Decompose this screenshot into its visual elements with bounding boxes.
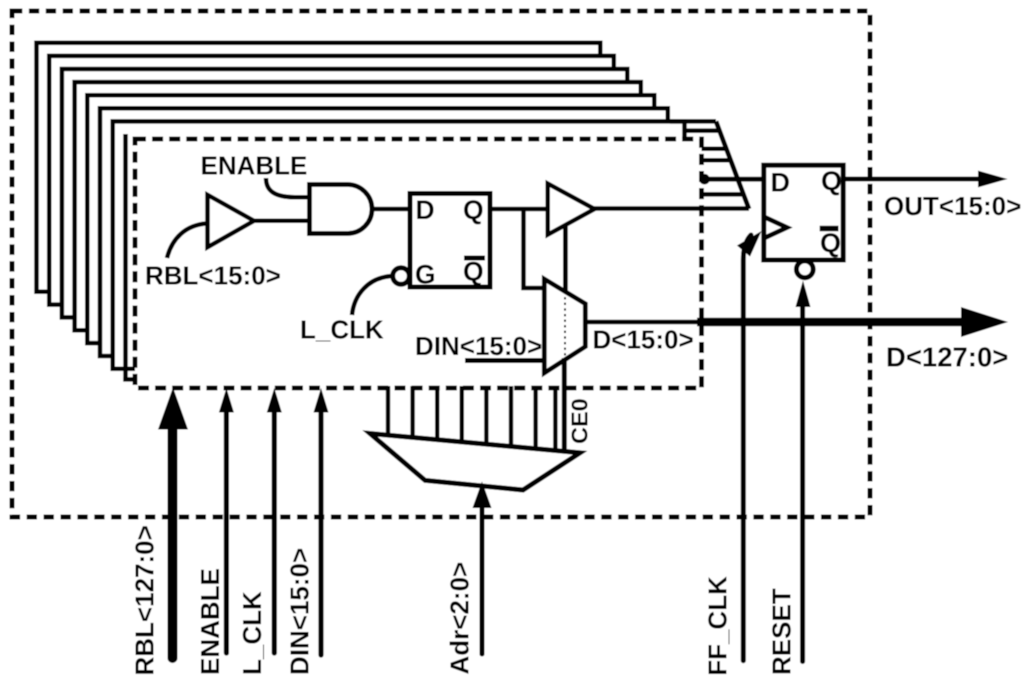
mux select dotted divider: [564, 286, 566, 368]
wire buffer A2 output to funnel: [593, 206, 749, 211]
wire slice7 output to funnel apex: [670, 119, 716, 124]
svg-text:DIN<15:0>: DIN<15:0>: [285, 548, 315, 675]
outer dashed block boundary: [12, 11, 870, 517]
svg-text:Q: Q: [463, 257, 484, 287]
svg-text:Q: Q: [463, 195, 484, 225]
slice stack rect 4: [75, 82, 641, 330]
wire FF_CLK with curved arrow: [743, 235, 751, 661]
svg-text:Adr<2:0>: Adr<2:0>: [445, 562, 475, 675]
bus D<127:0> thick wire: [697, 318, 963, 327]
svg-text:D: D: [771, 168, 791, 198]
wire RESET with arrowhead: [800, 306, 805, 662]
input arrow Adr<2:0>: [480, 500, 485, 654]
wire CE0 select: [562, 358, 567, 450]
bit-slice dashed box: [135, 139, 702, 388]
tri-state buffer A2: [548, 184, 595, 235]
decoder CE hang wire 1: [386, 386, 390, 441]
slice stack rect 3: [62, 69, 627, 317]
svg-text:Q: Q: [821, 166, 842, 196]
slice stack rect 8 left edge: [123, 134, 128, 382]
wire ENABLE curve: [266, 178, 310, 197]
wire latch Q to buffer: [490, 207, 549, 212]
flip-flop Qbar overline: [820, 226, 839, 232]
wire funnel to flip-flop D input: [703, 177, 766, 182]
flip-flop U3 box: [764, 165, 843, 260]
slice stack rect 7: [113, 121, 685, 368]
flip-flop reset bubble: [796, 261, 813, 278]
latch Qbar overline: [464, 256, 485, 261]
wire buffer to AND: [252, 219, 311, 224]
node dot on D wire: [699, 174, 710, 185]
decoder CE hang wire 5: [484, 386, 488, 450]
decoder CE hang wire 6: [509, 386, 513, 452]
decoder CE hang wire 3: [435, 386, 439, 446]
input arrow L_CLK: [272, 408, 277, 653]
wire junction down to mux: [524, 209, 547, 288]
funnel wire 3: [702, 147, 729, 152]
svg-text:DIN<15:0>: DIN<15:0>: [415, 331, 542, 361]
input arrow RBL<127:0>: [168, 424, 178, 658]
svg-text:D<15:0>: D<15:0>: [593, 325, 694, 355]
slice stack rect 6: [100, 108, 668, 356]
slice stack rect 2: [49, 56, 614, 305]
wire AND to latch D: [372, 207, 411, 212]
slice stack rect 1 (back): [37, 43, 601, 292]
svg-text:FF_CLK: FF_CLK: [703, 576, 733, 676]
wire OUT<15:0> with arrowhead: [843, 177, 981, 182]
svg-text:RBL<127:0>: RBL<127:0>: [130, 525, 160, 675]
wire DIN into mux: [465, 358, 546, 363]
wire RBL label curve: [167, 224, 207, 259]
input arrow DIN<15:0>: [318, 408, 323, 655]
decoder U2 trapezoid: [370, 434, 580, 491]
svg-text:L_CLK: L_CLK: [300, 315, 384, 345]
input arrow ENABLE: [224, 408, 229, 653]
funnel wire 6: [702, 192, 746, 197]
decoder CE hang wire 8: [553, 386, 557, 456]
svg-text:L_CLK: L_CLK: [237, 591, 267, 675]
AND gate: [310, 185, 373, 234]
wire slice8 output step: [685, 128, 720, 133]
svg-text:G: G: [415, 260, 436, 290]
funnel slant (8:1 wire merge): [716, 121, 749, 209]
mux M1 trapezoid: [544, 279, 585, 373]
latch G bubble: [393, 268, 410, 285]
svg-text:ENABLE: ENABLE: [201, 151, 308, 181]
flip-flop clock wedge: [764, 217, 787, 238]
wire mux output D<15:0>: [585, 320, 700, 325]
funnel wire 4: [702, 158, 733, 163]
slice stack rect 8 bottom edge: [123, 377, 133, 382]
svg-text:D<127:0>: D<127:0>: [886, 342, 1008, 373]
svg-text:ENABLE: ENABLE: [195, 568, 225, 675]
svg-text:Q: Q: [820, 228, 841, 258]
decoder CE hang wire 4: [460, 386, 464, 448]
svg-text:RESET: RESET: [767, 588, 797, 675]
svg-text:OUT<15:0>: OUT<15:0>: [884, 191, 1021, 221]
decoder CE hang wire 2: [410, 386, 414, 443]
decoder CE hang wire 7: [533, 386, 537, 455]
bus D<127:0> arrowhead: [961, 307, 1008, 337]
slice stack rect 5: [87, 95, 654, 343]
svg-text:D: D: [416, 195, 435, 225]
wire CE0 tri-state enable: [563, 224, 568, 293]
wire L_CLK curve: [352, 276, 392, 315]
svg-text:RBL<15:0>: RBL<15:0>: [145, 261, 281, 291]
latch U1 box: [410, 194, 490, 288]
svg-text:CE0: CE0: [567, 398, 593, 444]
buffer A1 (RBL sense): [208, 195, 255, 247]
